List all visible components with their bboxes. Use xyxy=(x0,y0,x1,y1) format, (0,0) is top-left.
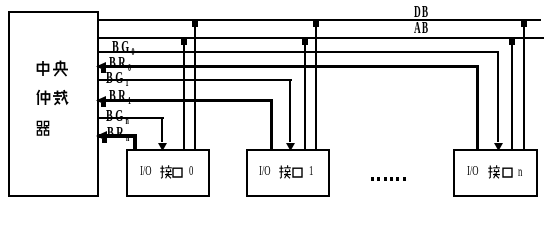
I/O interface 1 box xyxy=(246,149,330,197)
wire BG0 vertical drop to I/O n xyxy=(497,51,499,142)
arbiter label 中央 xyxy=(35,60,69,77)
label BG1 xyxy=(106,69,129,86)
wire DB tap vertical to I/O n xyxy=(523,20,525,150)
I/O interface n label xyxy=(467,165,479,179)
wire AB tap vertical to I/O n xyxy=(511,38,513,150)
bus DB wire xyxy=(98,19,541,21)
wire BR1 vertical from I/O 1 xyxy=(270,99,273,150)
wire BRn horizontal xyxy=(98,134,137,138)
wire BRn vertical from I/O 0 xyxy=(133,134,137,150)
bus AB label xyxy=(414,19,429,36)
central arbiter box 中央仲裁器 xyxy=(8,11,99,197)
wire BR1 horizontal xyxy=(98,99,273,102)
wire BG1 horizontal xyxy=(98,79,292,81)
bus AB wire xyxy=(98,37,544,39)
label BR0 xyxy=(109,54,131,71)
wire BR0 horizontal xyxy=(98,65,479,68)
arrow left BR1 into arbiter xyxy=(96,96,107,107)
arrow left BRn into arbiter xyxy=(96,131,108,143)
bus DB label xyxy=(414,3,429,20)
wire BGn horizontal xyxy=(98,117,164,119)
junction square DB / I/O 1 xyxy=(313,20,319,27)
junction square AB / I/O 1 xyxy=(302,38,308,45)
I/O interface n box xyxy=(453,149,538,197)
label BR1 xyxy=(109,87,131,104)
arrow down BGn into I/O 0 xyxy=(158,143,167,151)
arbiter label 器 xyxy=(35,120,51,136)
wire BR0 vertical from I/O n xyxy=(476,65,479,150)
wire BGn vertical drop to I/O 0 xyxy=(161,117,163,142)
junction square DB / I/O 0 xyxy=(192,20,198,27)
I/O interface 0 box xyxy=(126,149,210,197)
wire AB tap vertical to I/O 0 xyxy=(183,38,185,150)
label BG0 xyxy=(112,38,135,55)
label BGn xyxy=(106,107,129,124)
label BRn xyxy=(107,124,129,141)
junction square AB / I/O 0 xyxy=(181,38,187,45)
junction square AB / I/O n xyxy=(509,38,515,45)
arrow down BG1 into I/O 1 xyxy=(286,143,295,151)
wire BG1 vertical drop to I/O 1 xyxy=(289,79,291,142)
ellipsis dots xyxy=(371,177,374,181)
I/O interface 0 label xyxy=(140,165,152,179)
wire AB tap vertical to I/O 1 xyxy=(304,38,306,150)
wire DB tap vertical to I/O 0 xyxy=(194,20,196,150)
wire BG0 horizontal xyxy=(98,51,499,53)
arrow left BR0 into arbiter xyxy=(96,62,107,73)
I/O interface 1 label xyxy=(259,165,271,179)
wire DB tap vertical to I/O 1 xyxy=(315,20,317,150)
arbiter label 仲裁 xyxy=(35,89,69,106)
junction square DB / I/O n xyxy=(521,20,527,27)
arrow down BG0 into I/O n xyxy=(494,143,503,151)
